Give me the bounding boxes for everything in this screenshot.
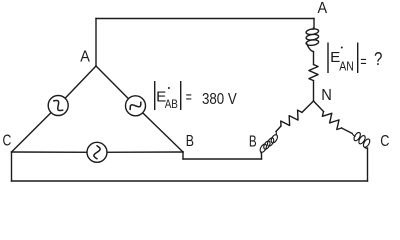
svg-text:N: N	[321, 87, 332, 104]
wire node N to resistor of phase B	[302, 101, 314, 112]
svg-text:A: A	[80, 49, 90, 66]
inductor coil in phase A of wye load	[306, 28, 319, 52]
wire load terminal A down to coil	[313, 19, 315, 29]
wire from delta node C down	[11, 152, 13, 181]
wire node N to resistor of phase C	[314, 101, 324, 112]
wire load terminal B riser	[261, 153, 263, 159]
wire between coil and resistor in phase A	[313, 52, 315, 65]
inductor coil in phase C of wye load	[352, 132, 370, 148]
resistor in phase A of wye load	[309, 65, 318, 81]
wire delta side A-B (lower part)	[136, 106, 184, 152]
wire delta side A-B (upper part)	[96, 66, 136, 106]
svg-text:AB: AB	[165, 97, 178, 111]
svg-text:B: B	[186, 133, 194, 150]
svg-text:C: C	[380, 133, 389, 150]
wire top rail from delta A to load terminal A	[96, 18, 314, 20]
wire bottom rail from delta C to load C	[12, 180, 368, 182]
svg-text:B: B	[249, 133, 257, 150]
svg-text:?: ?	[374, 49, 382, 69]
wire delta side C-B (left part)	[12, 151, 98, 153]
sine symbol of source E_BC	[94, 146, 100, 159]
wire between resistor and coil in phase C	[342, 128, 353, 133]
resistor in phase B of wye load	[281, 110, 302, 126]
label magnitude of phasor E_AN equals question mark	[327, 43, 328, 74]
sine symbol of source E_AB	[130, 102, 141, 109]
wire from node A of delta up to top rail	[95, 19, 97, 67]
wire delta side C-B (right part)	[97, 151, 183, 153]
wire delta side A-C (lower part)	[12, 106, 59, 153]
wire from delta node B down	[182, 152, 184, 159]
inductor coil in phase B of wye load	[260, 132, 277, 154]
wire between resistor and coil in phase B	[276, 126, 281, 132]
ac source E_CA on delta side C-A	[48, 96, 68, 116]
svg-text:=: =	[360, 53, 366, 70]
svg-text:C: C	[3, 133, 12, 150]
svg-text:=: =	[186, 89, 192, 106]
ac source E_BC on delta side C-B	[87, 142, 107, 162]
label magnitude of phasor E_AB equals 380 V	[154, 81, 155, 110]
wire resistor to node N	[313, 81, 315, 101]
sine symbol of source E_CA	[54, 100, 63, 110]
svg-text:A: A	[318, 0, 328, 17]
wire delta side A-C (upper part)	[58, 66, 96, 106]
svg-text:AN: AN	[339, 59, 354, 74]
wire from delta B to load terminal B	[183, 158, 262, 160]
wire load terminal C riser	[367, 148, 369, 181]
svg-text:380 V: 380 V	[202, 91, 237, 108]
ac source E_AB on delta side A-B	[126, 96, 146, 116]
resistor in phase C of wye load	[322, 112, 341, 130]
